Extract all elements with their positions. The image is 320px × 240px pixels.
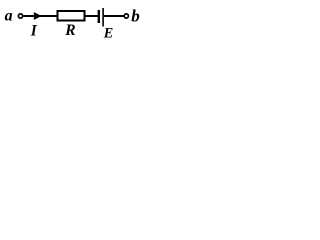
svg-text:R: R <box>64 22 75 39</box>
svg-text:E: E <box>103 26 113 42</box>
svg-text:b: b <box>131 6 140 25</box>
svg-text:a: a <box>5 8 13 25</box>
svg-text:I: I <box>30 23 38 40</box>
